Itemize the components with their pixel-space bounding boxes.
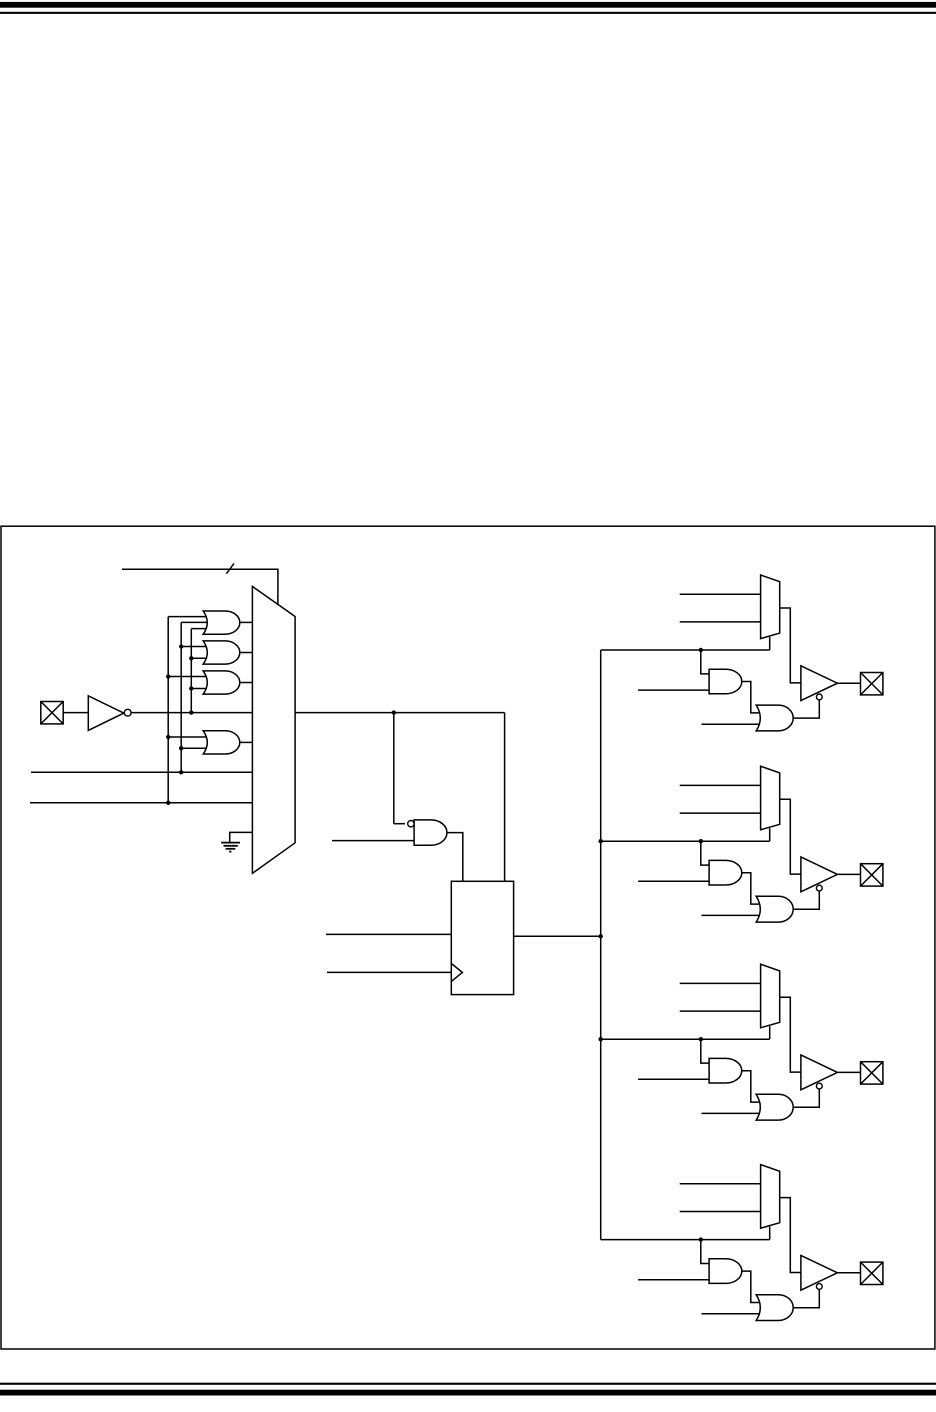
- wire mux M4 input 1: [680, 982, 761, 984]
- junction V1/line B: [166, 801, 170, 805]
- wire mux M2 input 1: [680, 593, 761, 595]
- bus width slash: [226, 563, 234, 573]
- wire FF1 D input: [326, 933, 451, 935]
- mux M3: [761, 766, 780, 830]
- wire or-gate G4 output to mux M1: [240, 741, 253, 743]
- nand gate G5: [414, 820, 447, 845]
- or-gate G3: [203, 671, 240, 694]
- wire select into mux M5: [769, 1227, 771, 1240]
- wire inverter output to mux M1: [131, 712, 252, 714]
- wire or O3 output to U3 enable: [793, 1089, 819, 1107]
- wire select into mux M3: [769, 828, 771, 841]
- wire V2 to or-gate G2 input 1: [181, 646, 209, 648]
- or gate O3: [756, 1094, 793, 1120]
- inverter U0 bubble: [124, 709, 131, 716]
- wire output bus vertical: [600, 650, 602, 1240]
- wire and gate A4 input 2: [638, 1279, 709, 1281]
- mux M2: [761, 575, 780, 639]
- wire mux M5 input 2: [680, 1211, 761, 1213]
- wire buffer U2 output to pad P3: [837, 873, 860, 875]
- mux M1: [252, 586, 295, 873]
- pad P3: [861, 864, 883, 886]
- junction V2/G4 input: [179, 746, 183, 750]
- wire V1 to or-gate G3 input 1: [168, 676, 209, 678]
- wire input line B to mux M1: [30, 802, 252, 804]
- ground: [221, 843, 240, 852]
- wire branch to and gate A2: [701, 841, 709, 865]
- wire V3 to or-gate G2 input 2: [191, 657, 209, 659]
- wire mux M2 output to buffer U1: [780, 608, 801, 683]
- header thin rule: [0, 12, 936, 14]
- junction bus/cell 3: [599, 1037, 603, 1041]
- wire select into mux M4: [769, 1026, 771, 1039]
- junction node N2: [599, 934, 603, 938]
- wire node N1 down to flip-flop FF1: [504, 713, 506, 882]
- wire and A3 output to or gate O3: [742, 1071, 762, 1102]
- or-gate G1: [203, 611, 240, 634]
- wire branch to and gate A4: [701, 1240, 709, 1264]
- junction branch/and feed cell 4: [699, 1237, 703, 1241]
- wire mux M5 output to buffer U4: [780, 1198, 801, 1273]
- and gate A4: [709, 1259, 742, 1284]
- footer thick rule: [0, 1390, 936, 1396]
- wire branch to cell 2: [601, 840, 770, 842]
- wire mux M3 output to buffer U2: [780, 799, 801, 874]
- wire branch to and gate A3: [701, 1039, 709, 1063]
- wire mux M4 input 2: [680, 1010, 761, 1012]
- wire mux M5 input 1: [680, 1183, 761, 1185]
- or-gate G4: [203, 731, 240, 754]
- wire or-gate G1 output to mux M1: [240, 621, 253, 623]
- wire mux M3 input 1: [680, 784, 761, 786]
- or-gate G2: [203, 641, 240, 664]
- wire or-gate G2 output to mux M1: [240, 652, 253, 654]
- wire vertical net V2: [180, 622, 182, 772]
- and gate A1: [709, 669, 742, 694]
- junction V1/G3 input: [166, 674, 170, 678]
- junction node N1: [392, 710, 396, 714]
- wire and gate A3 input 2: [638, 1078, 709, 1080]
- tristate buffer U3: [801, 1055, 838, 1090]
- buffer U3 enable bubble: [816, 1083, 822, 1089]
- d-flip-flop FF1: [451, 881, 513, 994]
- wire branch to cell 4: [601, 1239, 770, 1241]
- and gate A2: [709, 860, 742, 885]
- or gate O1: [756, 705, 793, 731]
- pad P1: [41, 702, 63, 724]
- wire into nand G5 bubble: [394, 823, 405, 825]
- wire V2 to or-gate G1 input 2: [181, 621, 209, 623]
- wire or-gate G3 output to mux M1: [240, 682, 253, 684]
- wire and gate A2 input 2: [638, 880, 709, 882]
- wire or O1 output to U1 enable: [793, 700, 819, 718]
- wire input line A to mux M1: [31, 771, 252, 773]
- tristate buffer U4: [801, 1255, 838, 1290]
- junction branch/and feed cell 1: [699, 648, 703, 652]
- pad P4: [861, 1062, 883, 1084]
- wire branch to cell 3: [601, 1038, 770, 1040]
- wire V3 to or-gate G3 input 2: [191, 688, 209, 690]
- wire mux M4 output to buffer U3: [780, 997, 801, 1072]
- wire V3 to or-gate G1 input 3: [191, 628, 209, 630]
- mux M5: [761, 1165, 780, 1229]
- wire FF1 Q output to node N2: [514, 935, 601, 937]
- wire or gate O3 input 2: [702, 1112, 763, 1114]
- wire and A2 output to or gate O2: [742, 873, 762, 904]
- wire select bus to mux M1 top: [122, 569, 278, 605]
- wire and A4 output to or gate O4: [742, 1271, 762, 1302]
- footer thin rule: [0, 1383, 936, 1385]
- wire mux M1 output: [295, 712, 505, 714]
- junction branch/and feed cell 3: [699, 1037, 703, 1041]
- wire mux M2 input 2: [680, 621, 761, 623]
- wire or gate O1 input 2: [702, 723, 763, 725]
- wire buffer U3 output to pad P4: [837, 1071, 860, 1073]
- mux M4: [761, 964, 780, 1028]
- buffer U1 enable bubble: [816, 694, 822, 700]
- wire V1 to or-gate G4 input 1: [168, 736, 209, 738]
- junction V3/G3 input: [189, 686, 193, 690]
- junction V1/G4 input: [166, 735, 170, 739]
- wire or O2 output to U2 enable: [793, 891, 819, 909]
- wire V1 to or-gate G1 input 1: [168, 616, 209, 618]
- wire branch to and gate A1: [701, 650, 709, 674]
- tristate buffer U2: [801, 857, 838, 892]
- wire mux M3 input 2: [680, 812, 761, 814]
- wire buffer U4 output to pad P5: [837, 1272, 860, 1274]
- or gate O2: [756, 896, 793, 922]
- junction V2/line A: [179, 770, 183, 774]
- wire V2 to or-gate G4 input 2: [181, 747, 209, 749]
- wire or gate O2 input 2: [702, 914, 763, 916]
- wire branch to cell 1: [601, 649, 770, 651]
- wire nand G5 output to FF1: [447, 833, 463, 882]
- header thick rule: [0, 2, 936, 8]
- inverter U0: [88, 696, 124, 731]
- junction V2/G2 input: [179, 644, 183, 648]
- wire nand G5 input 2: [332, 840, 414, 842]
- wire node N1 to nand gate G5 input 1: [393, 712, 395, 824]
- buffer U4 enable bubble: [816, 1284, 822, 1290]
- wire ground stub to mux M1: [230, 832, 253, 842]
- and gate A3: [709, 1058, 742, 1083]
- junction V3/G2 input: [189, 656, 193, 660]
- junction V3/inverter line: [189, 710, 193, 714]
- wire vertical net V3: [190, 629, 192, 713]
- tristate buffer U1: [801, 666, 838, 701]
- wire or gate O4 input 2: [702, 1313, 763, 1315]
- pad P5: [861, 1262, 883, 1284]
- nand gate G5 bubble: [408, 821, 414, 827]
- junction branch/and feed cell 2: [699, 839, 703, 843]
- wire vertical net V1: [167, 617, 169, 803]
- or gate O4: [756, 1295, 793, 1321]
- wire pad to inverter: [63, 712, 88, 714]
- wire FF1 clock input: [327, 971, 451, 973]
- FF1 clock triangle: [451, 964, 462, 982]
- figure border frame: [1, 526, 935, 1349]
- junction bus/cell 2: [599, 839, 603, 843]
- wire and A1 output to or gate O1: [742, 682, 762, 713]
- pad P2: [861, 673, 883, 695]
- wire and gate A1 input 2: [638, 689, 709, 691]
- wire select into mux M2: [769, 637, 771, 650]
- buffer U2 enable bubble: [816, 885, 822, 891]
- wire or O4 output to U4 enable: [793, 1289, 819, 1307]
- wire buffer U1 output to pad P2: [837, 682, 860, 684]
